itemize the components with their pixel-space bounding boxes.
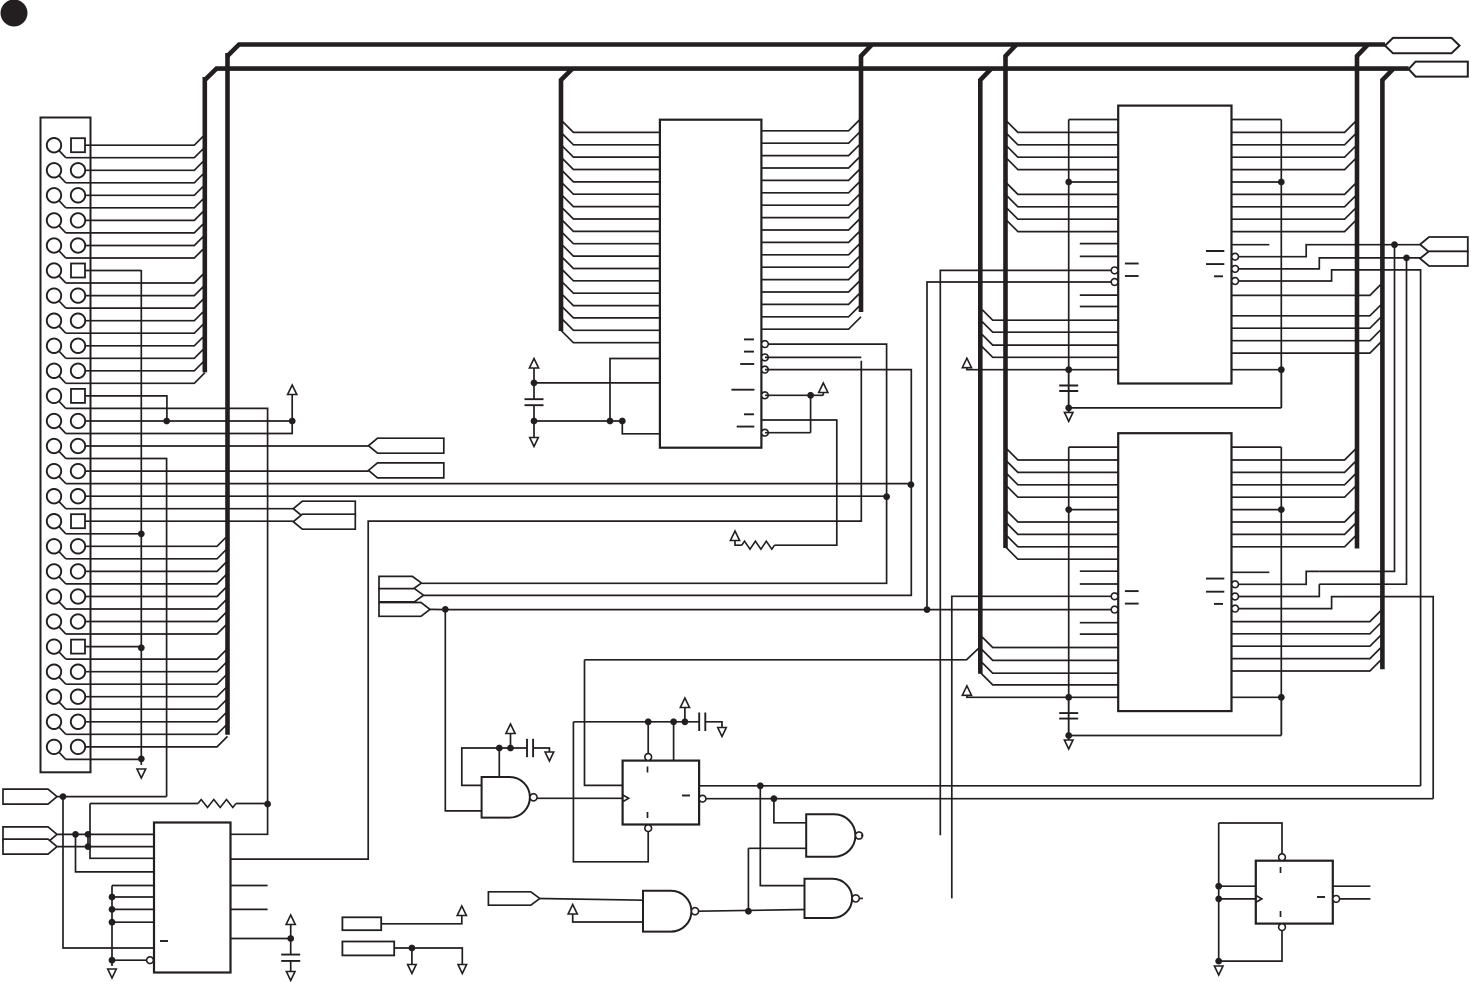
wire jog row 10 xyxy=(59,376,66,384)
wire VCC stem xyxy=(822,393,824,396)
flag net F xyxy=(3,827,57,842)
wire U4 addr L1 xyxy=(1006,460,1119,472)
wire jog row 18 xyxy=(59,576,66,584)
wire jog row 23 xyxy=(59,702,66,710)
connector J1 pin row 8 left circle xyxy=(47,314,61,328)
ground GND arrow C4 xyxy=(718,728,727,737)
node junction xyxy=(645,718,652,725)
wire U2 left pin 7 xyxy=(561,194,660,206)
node junction xyxy=(1278,366,1285,373)
wire U3 addr L1 xyxy=(1006,132,1119,144)
wire U1 en pin xyxy=(112,959,147,961)
wire jog row 15 xyxy=(59,501,66,509)
wire U2 out4-5 link xyxy=(810,395,812,432)
wire U3 ctrlL2 xyxy=(980,320,1118,332)
wire G4 in2 xyxy=(573,914,643,922)
node junction xyxy=(1065,366,1072,373)
wire row3b to DBUS xyxy=(66,197,205,208)
wire row8 to DBUS xyxy=(85,310,205,321)
wire row22b to ABUS xyxy=(66,674,228,685)
wire U2 pin cap xyxy=(534,382,660,384)
wire flagC right net xyxy=(445,609,1111,611)
wire row13 to flag xyxy=(85,445,369,447)
wire U3 Vrail top R xyxy=(1232,119,1282,121)
wire U4 addr L7 xyxy=(1006,534,1119,546)
wire row14 to flag xyxy=(85,470,369,472)
pin number mark U2 xyxy=(744,351,754,353)
connector J1 pin row 5 left circle xyxy=(47,238,61,252)
wire row4b to DBUS xyxy=(66,222,205,233)
wire flagC stub xyxy=(430,608,445,610)
pin number mark U2 xyxy=(744,338,754,340)
wire U3 OE vert xyxy=(927,282,1111,610)
wire row13b to x166 xyxy=(66,459,167,797)
node junction xyxy=(1065,506,1072,513)
wire FF1 clr loop xyxy=(573,722,648,862)
node junction xyxy=(682,718,689,725)
power VCC arrow U2out xyxy=(819,383,828,393)
wire U3 data R2 xyxy=(1232,145,1358,157)
wire row12b stub xyxy=(66,433,268,435)
wire row21b to ABUS xyxy=(66,649,228,660)
wire G1 pwr rail xyxy=(499,747,527,749)
power VCC arrow G4 xyxy=(568,905,577,915)
jumper W2 xyxy=(342,942,394,956)
wire jog row 7 xyxy=(59,300,66,308)
pin bubble U3 OE xyxy=(1111,279,1118,286)
wire row17b to ABUS xyxy=(66,548,228,559)
flag net Cb xyxy=(379,589,424,602)
wire row10 to DBUS xyxy=(85,360,205,371)
wire jog row 9 xyxy=(59,351,66,359)
node junction xyxy=(163,418,170,425)
power VCC arrow U2 xyxy=(529,359,538,369)
pin number mark U4 xyxy=(1206,591,1224,593)
wire U2 left pin 11 xyxy=(561,244,660,256)
wire U2 out4 xyxy=(765,394,823,396)
wire G1 in2 xyxy=(445,609,481,811)
wire U3 gnd stem xyxy=(1068,408,1070,413)
connector J1 pin row 7 left circle xyxy=(47,288,61,302)
wire U2 pin420 net xyxy=(761,420,836,545)
wire FF1 top stem2 xyxy=(673,722,675,761)
wire U3 Vrail right xyxy=(1280,120,1282,408)
pin number mark U2 xyxy=(737,426,755,428)
pin bubble U4 WE xyxy=(1111,593,1118,600)
capacitor C4 xyxy=(698,713,700,732)
wire U4 data R3 xyxy=(1232,485,1358,497)
node junction xyxy=(757,782,764,789)
wire U3 stub L xyxy=(1080,306,1118,308)
connector J1 pin row 16 left circle xyxy=(47,514,61,528)
wire U4 vr ext xyxy=(1280,697,1282,735)
wire row24 to ABUS xyxy=(85,711,228,722)
node junction xyxy=(138,644,145,651)
wire jog row 2 xyxy=(59,175,66,183)
wire R2 stem xyxy=(735,541,742,546)
pin number mark U3 xyxy=(1206,250,1224,252)
wire U2 left pin 4 xyxy=(561,157,660,169)
wire F drop xyxy=(76,834,155,872)
wire U2 gnd pin xyxy=(622,421,660,434)
capacitor C2 xyxy=(525,398,544,400)
wire R1 left xyxy=(90,803,198,805)
wire C2 top stem xyxy=(533,383,535,399)
wire st2 drop xyxy=(1319,258,1406,584)
connector J1 pin row 4 right circle xyxy=(71,213,85,227)
wire NAND2 out net xyxy=(940,270,1111,835)
pin bubble U3 WE xyxy=(1111,267,1118,274)
pin bubble U2 out1 xyxy=(762,341,769,348)
wire row16 to flagE xyxy=(85,520,293,522)
wire U4 gnd stem xyxy=(1068,736,1070,741)
connector J1 pin row 10 left circle xyxy=(47,364,61,378)
connector J1 pin row 12 left circle xyxy=(47,414,61,428)
wire U3 st2 xyxy=(1239,258,1421,269)
flag net label ABUS xyxy=(1385,38,1460,53)
wire U3 addr L2 xyxy=(1006,145,1119,157)
wire row11 square to x167 xyxy=(85,396,167,421)
connector J1 pin row 3 left circle xyxy=(47,188,61,202)
pin number mark U4 xyxy=(1125,603,1139,605)
flag net label DBUS xyxy=(1409,62,1468,77)
wire U2 left pin 16 xyxy=(561,306,660,318)
IC FF2 body xyxy=(1256,861,1333,924)
pin number mark U4 xyxy=(1125,590,1139,592)
wire row12 loop xyxy=(268,421,293,434)
capacitor C3 xyxy=(526,739,528,757)
jumper W1 xyxy=(342,917,381,930)
wire U2 left pin 1 xyxy=(561,120,660,132)
wire row6 to gnd stub xyxy=(85,270,141,272)
wire G1 vcc stem xyxy=(510,734,512,749)
wire U1 rail top xyxy=(112,885,154,887)
pin bubble U2 out2 xyxy=(762,354,769,361)
wire row5b to DBUS xyxy=(66,248,205,259)
wire row19 to ABUS xyxy=(85,586,228,597)
wire U4 addr L6 xyxy=(1006,522,1119,534)
wire row5 to DBUS xyxy=(85,235,205,246)
flag PA net 1 xyxy=(369,438,444,453)
wire jog row 13 xyxy=(59,451,66,459)
wire jog row 6 xyxy=(59,275,66,283)
wire U1 q3 xyxy=(231,938,291,940)
node junction xyxy=(289,418,296,425)
wire row24b to ABUS xyxy=(66,724,228,735)
wire W2 gnd stem xyxy=(411,948,413,965)
NAND gate G4 xyxy=(643,891,691,932)
connector J1 pin row 18 left circle xyxy=(47,564,61,578)
wire G1 in1 feedback xyxy=(462,748,500,785)
pin bubble U1 en xyxy=(147,957,154,964)
wire row17 to ABUS xyxy=(85,536,228,547)
wire row14b long RAS xyxy=(66,483,911,485)
connector J1 pin row 2 left circle xyxy=(47,163,61,177)
wire row25b to gnd rail xyxy=(66,758,142,760)
wire jog row 3 xyxy=(59,200,66,208)
node junction xyxy=(1065,405,1072,412)
wire U4 ctrlL2 xyxy=(980,648,1118,660)
wire U3 Vrail top L xyxy=(1069,119,1119,121)
connector J1 body xyxy=(41,118,91,773)
node junction xyxy=(924,606,931,613)
connector J1 pin row 3 right circle xyxy=(71,188,85,202)
node junction xyxy=(1278,179,1285,186)
wire FF2 Q out xyxy=(1333,885,1371,887)
wire U4 Vrail left xyxy=(1068,447,1070,735)
pin number mark FF2 a xyxy=(1280,867,1282,873)
wire U1 pin xyxy=(112,896,154,898)
node junction xyxy=(109,957,116,964)
wire U3 data R5 xyxy=(1232,182,1358,194)
wire U2 right pin 10 xyxy=(761,230,861,242)
IC FF1 body xyxy=(623,761,700,825)
wire G4-G2 link xyxy=(747,848,749,911)
wire FF1 Q net xyxy=(699,785,1421,787)
pin bubble U4 Q1 xyxy=(1232,581,1239,588)
node junction xyxy=(1215,883,1222,890)
wire U4 Vrail right xyxy=(1280,447,1282,735)
pin number mark U4 xyxy=(1214,603,1223,605)
wire U4 ctrlR2 xyxy=(1232,621,1383,634)
wire U4 ctrlR5 xyxy=(1232,659,1383,672)
node junction xyxy=(496,745,503,752)
power VCC arrow U1c xyxy=(286,915,295,925)
wire row3 to DBUS xyxy=(85,185,205,196)
wire U2 right pin 17 xyxy=(761,317,861,329)
wire U4 ctrlL3 xyxy=(980,661,1118,673)
wire jog row 14 xyxy=(59,476,66,484)
wire U4 gnd xyxy=(1069,735,1282,737)
wire R1 right xyxy=(236,803,268,805)
wire row23b to ABUS xyxy=(66,699,228,710)
wire row25 to ABUS xyxy=(85,736,228,747)
wire U4 data R4 xyxy=(1232,509,1282,511)
connector J1 pin row 14 left circle xyxy=(47,464,61,478)
wire U2 right pin 5 xyxy=(761,168,861,180)
wire U4 data R7 xyxy=(1232,534,1358,546)
flag net K xyxy=(488,892,539,905)
pin number mark FF1 c xyxy=(682,795,690,797)
pin number mark U3 xyxy=(1125,263,1139,265)
NAND gate G1 xyxy=(482,777,530,818)
pin number mark FF1 a xyxy=(647,767,649,773)
node junction xyxy=(409,945,416,952)
node junction xyxy=(1065,694,1072,701)
wire U4 ctrlL1 xyxy=(980,635,1118,647)
flag net Ca xyxy=(379,576,421,589)
node junction xyxy=(908,481,915,488)
wire U1 ctl to mid-IC xyxy=(231,361,862,859)
wire U2 right pin 9 xyxy=(761,218,861,230)
wire FF2 D xyxy=(1219,885,1256,887)
wire U3 st3 xyxy=(1239,270,1421,786)
NAND gate G2 xyxy=(806,814,855,856)
wire G1 top feed xyxy=(498,748,500,777)
node junction xyxy=(60,793,67,800)
wire U3 ctrlR4 xyxy=(1232,341,1383,354)
wire row8b to DBUS xyxy=(66,323,205,334)
node junction xyxy=(883,493,890,500)
wire U3 vr ext xyxy=(1280,370,1282,408)
pin bubble FF2 PRE xyxy=(1279,854,1286,861)
node junction xyxy=(1065,179,1072,186)
wire row9b to DBUS xyxy=(66,348,205,359)
wire bus right-IC ctrl right xyxy=(1382,69,1393,670)
wire row20 to ABUS xyxy=(85,611,228,622)
wire U2 left pin 13 xyxy=(561,268,660,280)
wire jog row 21 xyxy=(59,651,66,659)
wire bus mid-IC left xyxy=(561,69,573,331)
wire bus vertical left A xyxy=(225,53,230,735)
wire jog row 24 xyxy=(59,727,66,735)
node fiducial dot xyxy=(1,0,28,27)
wire G2 in1 xyxy=(774,799,806,823)
wire U4 data R0 xyxy=(1232,448,1358,460)
pin bubble U4 OE xyxy=(1111,606,1118,613)
wire W1 net xyxy=(381,916,462,924)
wire bus ABUS top rail xyxy=(228,45,1386,57)
wire bus DBUS second rail xyxy=(205,69,1409,80)
flag net G xyxy=(3,839,57,854)
wire U1 pin xyxy=(112,921,154,923)
wire G1 out xyxy=(537,797,623,799)
wire U3 ctrlR1 xyxy=(1232,303,1383,316)
wire U3 data R1 xyxy=(1232,132,1358,144)
connector J1 pin row 9 left circle xyxy=(47,339,61,353)
wire jog row 8 xyxy=(59,326,66,334)
flag PB net D xyxy=(293,501,355,516)
flag net C xyxy=(379,603,430,617)
wire U3 data R3 xyxy=(1232,157,1358,169)
wire row7b to DBUS xyxy=(66,298,205,309)
wire U4 vl ext xyxy=(1068,697,1070,735)
power VCC arrow FF1 xyxy=(680,698,689,708)
connector J1 pin row 13 right circle xyxy=(71,439,85,453)
connector J1 pin row 1 right square xyxy=(71,138,85,152)
connector J1 pin row 16 right square xyxy=(71,514,85,528)
node junction xyxy=(138,756,145,763)
node junction xyxy=(531,380,538,387)
wire jog row 22 xyxy=(59,677,66,685)
wire FF1 pre stem xyxy=(647,722,649,754)
wire U4 stub R xyxy=(1232,571,1270,573)
wire C2 bottom stem xyxy=(533,405,535,437)
wire U4 addr L2 xyxy=(1006,472,1119,484)
connector J1 pin row 1 left circle xyxy=(47,138,61,152)
wire U4 Vrail top L xyxy=(1069,446,1119,448)
wire U4 ctrlR4 xyxy=(1232,646,1383,659)
pin number mark U1 xyxy=(160,940,168,942)
wire U2 right pin 4 xyxy=(761,156,861,168)
wire R1 to U1 xyxy=(231,804,268,834)
wire row20b to ABUS xyxy=(66,624,228,635)
wire ground rail x141 xyxy=(140,270,142,765)
node junction xyxy=(1215,958,1222,965)
node junction xyxy=(138,531,145,538)
wire row11b long xyxy=(66,408,268,804)
wire jog row 12 xyxy=(59,426,66,434)
wire U3 addr L0 xyxy=(1006,120,1119,132)
wire row18b to ABUS xyxy=(66,573,228,584)
wire U4 addr L3 xyxy=(1006,485,1119,497)
wire U3 stub R xyxy=(1232,244,1270,246)
connector J1 pin row 22 left circle xyxy=(47,665,61,679)
wire U2 gnd jog xyxy=(534,420,622,422)
wire U2 out1 net flagA xyxy=(421,344,886,583)
wire U2 left pin 10 xyxy=(561,231,660,243)
IC U4 body xyxy=(1118,433,1231,711)
wire jog row 11 xyxy=(59,401,66,409)
ground GND arrow U1 xyxy=(108,969,117,978)
ground GND arrow U2 xyxy=(530,438,539,447)
wire FF2 rail xyxy=(1218,823,1220,961)
wire U3 data R6 xyxy=(1232,194,1358,206)
wire U1 q1 xyxy=(231,885,268,887)
ground GND arrow C3 xyxy=(545,752,554,761)
power VCC arrow R2 xyxy=(730,531,739,541)
node junction xyxy=(1391,241,1398,248)
connector J1 pin row 2 right circle xyxy=(71,163,85,177)
wire U2 left pin 3 xyxy=(561,145,660,157)
ground GND arrow W2b xyxy=(458,965,467,974)
connector J1 pin row 24 right circle xyxy=(71,715,85,729)
pin number mark FF2 b xyxy=(1280,911,1282,917)
wire U3 ctrlL3 xyxy=(980,333,1118,345)
pin number mark U2 xyxy=(740,363,754,365)
flag PA net 2 xyxy=(369,463,444,478)
connector J1 pin row 17 right circle xyxy=(71,539,85,553)
pin bubble U3 Q2 xyxy=(1232,266,1239,273)
connector J1 pin row 25 right circle xyxy=(71,740,85,754)
wire FF1 D net xyxy=(585,647,981,660)
wire U4 addr L5 xyxy=(1006,510,1119,522)
connector J1 pin row 20 right circle xyxy=(71,614,85,628)
pin bubble FF2 CLR xyxy=(1279,924,1286,931)
connector J1 pin row 19 right circle xyxy=(71,589,85,603)
pin bubble FF1 CLR xyxy=(645,825,652,832)
wire U3 ctrlR0 xyxy=(1232,283,1383,296)
wire U4 stub L xyxy=(1080,633,1118,635)
wire U2 left pin 6 xyxy=(561,182,660,194)
wire row4 to DBUS xyxy=(85,210,205,221)
wire U2 right pin 12 xyxy=(761,255,861,267)
ground GND arrow C1 xyxy=(286,972,295,981)
ground GND arrow U4 xyxy=(1064,740,1073,749)
wire U4 data R1 xyxy=(1232,460,1358,472)
wire U3 ctrlR3 xyxy=(1232,328,1383,341)
node junction xyxy=(109,919,116,926)
wire row23 to ABUS xyxy=(85,686,228,697)
pin bubble FF2 Qb xyxy=(1333,896,1340,903)
wire U2 out5 xyxy=(765,432,811,434)
wire U2 left pin 18 xyxy=(561,330,660,342)
wire U2 right pin 14 xyxy=(761,280,861,292)
connector J1 pin row 9 right circle xyxy=(71,339,85,353)
wire U3 ctrlR2 xyxy=(1232,316,1383,329)
wire U2 right pin 11 xyxy=(761,242,861,254)
wire FF1 D drop xyxy=(585,660,623,786)
wire U2 left pin 14 xyxy=(561,281,660,293)
wire U2 left pin 8 xyxy=(561,207,660,219)
wire G4 in1 xyxy=(540,899,643,901)
resistor R1 xyxy=(198,800,236,808)
wire row16b to gnd rail xyxy=(66,533,142,535)
connector J1 pin row 10 right circle xyxy=(71,364,85,378)
wire U4 st3 xyxy=(1239,597,1434,799)
wire jog row 20 xyxy=(59,626,66,634)
wire NAND3 out net xyxy=(952,596,1111,898)
